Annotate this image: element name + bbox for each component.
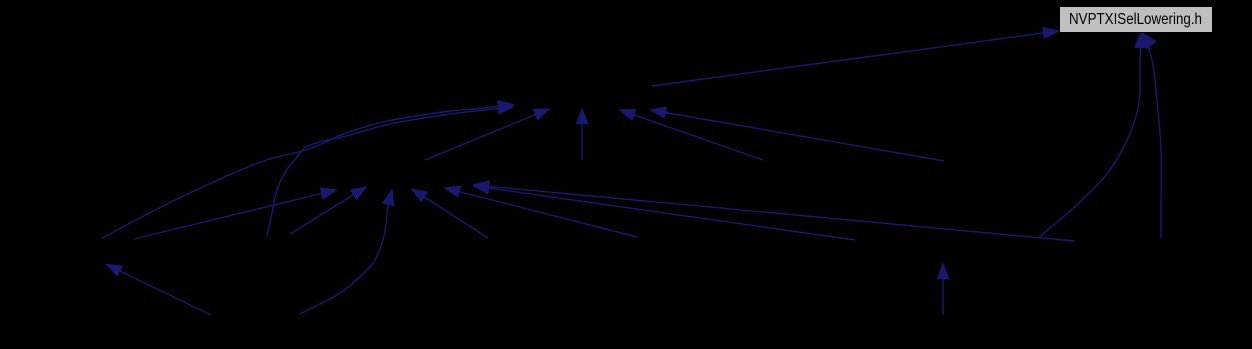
edge long from (855,240) into node B right border [474, 186, 855, 240]
edge from (488,238) into node B bottom [412, 189, 488, 238]
edge into node C bottom-right (lower left area) [107, 265, 212, 316]
edge node A top-right to grey box left border [652, 31, 1058, 86]
edge vertical bottom right [942, 264, 944, 315]
edge from (763,160) into node A bottom [620, 110, 763, 160]
edge right curve 2 (nearly vertical) into grey box bottom [1143, 33, 1162, 238]
edge node B top to node A bottom [425, 109, 549, 160]
edge from (637,237) into node B bottom-right [445, 188, 637, 237]
node NVPTXISelLowering.h (grey box) [1060, 7, 1213, 33]
edge short into node B bottom [290, 187, 366, 234]
edge long lower-left curve into node A left border [102, 105, 513, 239]
edge bottom curve into node B bottom (vertical end) [300, 190, 392, 314]
edge vertical into node A bottom [581, 109, 583, 160]
edge right curve 1 into grey box bottom [1038, 33, 1141, 238]
edge from (944,161) into node A right border [651, 110, 944, 161]
edge longest from (1074,241) into node B right border [474, 185, 1074, 241]
svg-text:NVPTXISelLowering.h: NVPTXISelLowering.h [1069, 11, 1202, 28]
edge into node B left border [134, 190, 336, 239]
edge arc from lower rank into node A left border [267, 107, 513, 237]
